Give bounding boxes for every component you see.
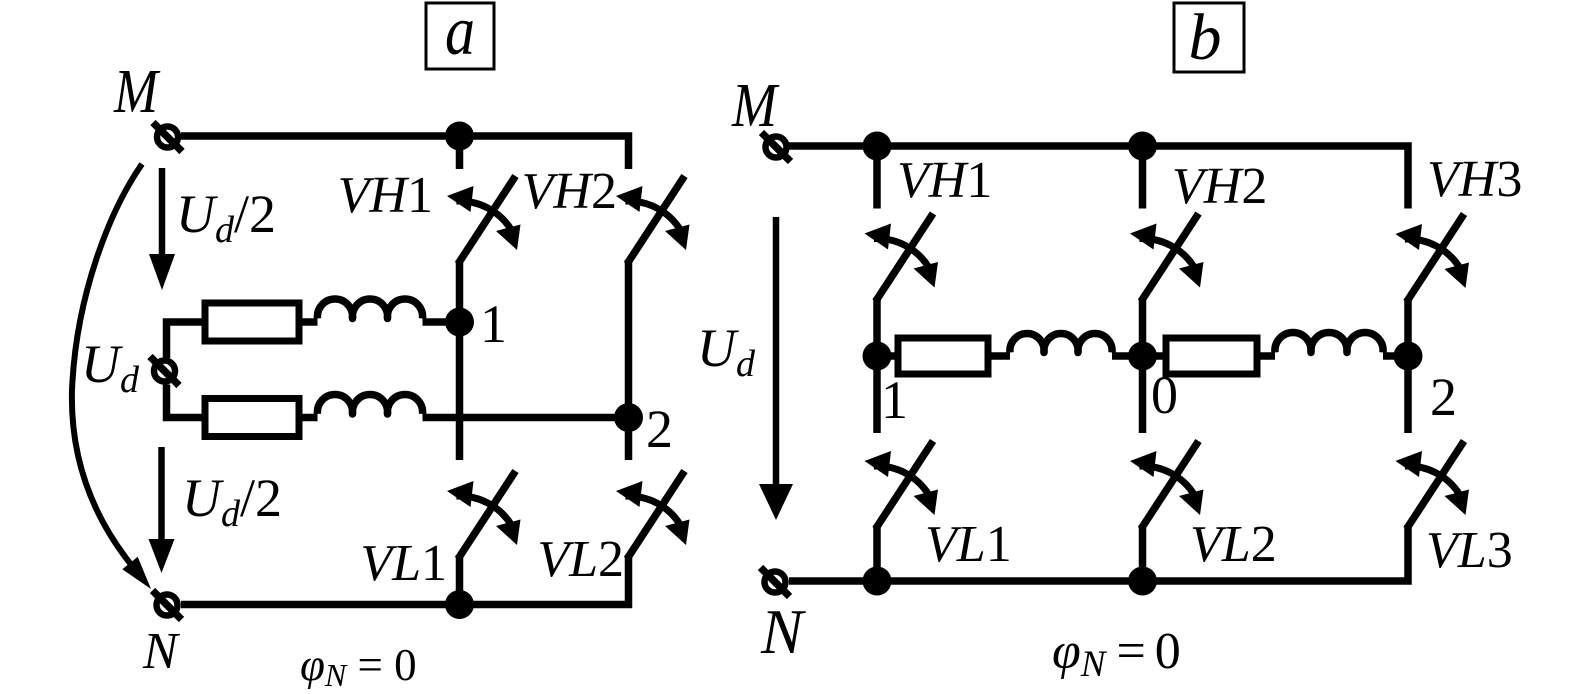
junction node 2 (a) xyxy=(614,403,643,432)
svg-text:M: M xyxy=(731,72,780,140)
switch VL2 (a) xyxy=(616,471,690,559)
wire VH1 upper stub (b) xyxy=(873,146,881,209)
wire VH2 upper stub (b) xyxy=(1139,146,1147,209)
inductor L2 (b) xyxy=(1275,332,1383,352)
switch VH1 (a) xyxy=(447,176,521,264)
switch VL3 (b) xyxy=(1396,441,1470,529)
junction node 0 (b) xyxy=(1128,342,1157,371)
svg-text:φN = 0: φN = 0 xyxy=(1052,623,1180,685)
junction node 1 (a) xyxy=(445,308,474,337)
wire VH2 to node 2 (a) xyxy=(625,260,633,418)
switch VL1 (a) xyxy=(447,471,521,559)
wire top rail (a) xyxy=(181,136,629,169)
junction top rail / VH2 (b) xyxy=(1128,132,1157,161)
terminal M (a) xyxy=(153,123,182,152)
switch VH1 (b) xyxy=(865,214,939,302)
wire VH1 upper stub (a) xyxy=(456,136,464,169)
svg-text:2: 2 xyxy=(646,399,673,459)
wire VL1 to bottom rail (b) xyxy=(873,525,881,581)
svg-text:M: M xyxy=(113,58,161,126)
wire upper load left lead (a) xyxy=(167,322,206,358)
switch VH2 (a) xyxy=(616,176,690,264)
junction bottom rail / VL1 (a) xyxy=(445,590,474,619)
wire lower load left lead (a) xyxy=(167,385,206,418)
inductor L2 (a) xyxy=(317,395,422,414)
label box b xyxy=(1174,1,1244,74)
wire node 1 to R1 (b) xyxy=(877,352,898,360)
svg-text:VH3: VH3 xyxy=(1427,151,1522,208)
svg-text:VL2: VL2 xyxy=(537,531,624,588)
inductor L1 (b) xyxy=(1010,334,1112,353)
wire L1 to node 1 (a) xyxy=(423,318,460,326)
svg-text:VL2: VL2 xyxy=(1190,516,1277,573)
label box a xyxy=(426,0,494,70)
switch VL1 (b) xyxy=(865,441,939,529)
wire L2 to node 2 (b) xyxy=(1383,352,1408,360)
svg-text:φN = 0: φN = 0 xyxy=(300,640,417,689)
arrow Ud (b) xyxy=(759,217,793,520)
junction node 2 (b) xyxy=(1394,342,1423,371)
svg-text:VH1: VH1 xyxy=(897,152,992,209)
wire bottom rail (b) xyxy=(789,525,1408,581)
svg-text:VL1: VL1 xyxy=(360,535,447,592)
svg-text:0: 0 xyxy=(1151,365,1178,425)
svg-text:VL1: VL1 xyxy=(925,516,1012,573)
switch VH2 (b) xyxy=(1130,214,1204,302)
junction bottom rail / VL2 (b) xyxy=(1128,567,1157,596)
wire R2 to L2 stub (a) xyxy=(299,414,318,422)
wire R1 to L1 (b) xyxy=(988,352,1010,360)
terminal M (b) xyxy=(762,133,791,162)
wire VL1 to bottom rail (a) xyxy=(456,555,464,605)
wire VH1 to node 1 (a) xyxy=(456,260,464,322)
wire VH2 to node 0 (b) xyxy=(1139,298,1147,357)
arrow Ud/2 lower (a) xyxy=(149,447,175,573)
wire L2 to node 2 (a) xyxy=(423,414,629,422)
wire VH3 to node 2 (b) xyxy=(1404,298,1412,356)
wire node 1 to VL1 (b) xyxy=(873,356,881,433)
svg-text:VL3: VL3 xyxy=(1426,522,1513,579)
wire L1 to node 0 (b) xyxy=(1112,352,1143,360)
svg-text:N: N xyxy=(142,623,181,680)
svg-text:a: a xyxy=(445,0,475,70)
arrow Ud/2 upper (a) xyxy=(149,168,175,290)
terminal N (a) xyxy=(153,591,182,620)
svg-text:VH2: VH2 xyxy=(1172,158,1267,215)
wire node 0 to VL2 (b) xyxy=(1139,356,1147,433)
wire node 0 to R2 (b) xyxy=(1143,352,1167,360)
wire R2 to L2 (b) xyxy=(1257,352,1275,360)
junction top rail / VH1 (b) xyxy=(863,132,892,161)
terminal N (b) xyxy=(761,568,790,597)
svg-text:1: 1 xyxy=(480,294,507,354)
wire VL2 to bottom rail (b) xyxy=(1139,525,1147,581)
wire node 2 to VL3 (b) xyxy=(1404,356,1412,433)
wire VH1 to node 1 (b) xyxy=(873,298,881,357)
switch VH3 (b) xyxy=(1396,214,1470,302)
svg-text:1: 1 xyxy=(881,370,908,430)
resistor R2 (b) xyxy=(1166,338,1257,374)
svg-text:2: 2 xyxy=(1430,367,1457,427)
switch VL2 (b) xyxy=(1130,441,1204,529)
inductor L1 (a) xyxy=(317,299,422,318)
resistor R1 (a) xyxy=(205,303,299,341)
terminal Ud mid (a) xyxy=(150,357,179,386)
junction node 1 (b) xyxy=(863,342,892,371)
junction top rail / VH1 (a) xyxy=(445,122,474,151)
svg-text:VH2: VH2 xyxy=(522,163,617,220)
wire bottom rail (a) xyxy=(181,555,629,605)
svg-text:N: N xyxy=(760,596,806,667)
wire R1 to L1 stub (a) xyxy=(299,318,318,326)
wire node 2 to VL2 (a) xyxy=(625,418,633,461)
wire top rail (b) xyxy=(789,146,1408,209)
svg-text:b: b xyxy=(1189,1,1222,74)
resistor R1 (b) xyxy=(898,338,988,374)
curved arrow Ud overall (a) xyxy=(72,164,151,589)
svg-text:VH1: VH1 xyxy=(338,167,433,224)
wire node 1 to VL1 (a) xyxy=(456,322,464,460)
junction bottom rail / VL1 (b) xyxy=(863,567,892,596)
resistor R2 (a) xyxy=(205,399,299,437)
